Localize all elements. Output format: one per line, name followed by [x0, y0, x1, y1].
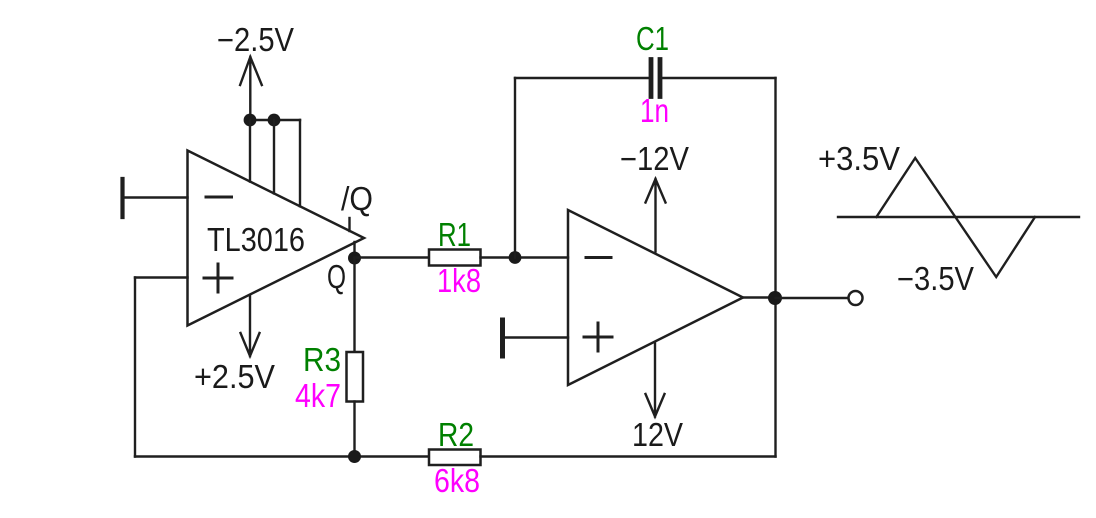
wire power pin 2 [273, 120, 275, 193]
comparator U1 TL3016 [188, 151, 365, 326]
wire R1 to op-amp [481, 256, 569, 258]
junction dot bottom [348, 450, 361, 463]
waveform triangle wave [876, 158, 1035, 277]
wire bottom right [481, 455, 776, 457]
wire op-amp output [743, 296, 776, 298]
svg-text:R1: R1 [438, 216, 471, 253]
wire power pin 3 [299, 120, 301, 206]
pin /Q stub [348, 218, 350, 231]
inverting input marker [206, 196, 232, 199]
wire power rail [250, 119, 300, 121]
svg-text:4k7: 4k7 [295, 377, 341, 414]
power arrow 12V [646, 344, 665, 417]
op-amp U2 [568, 210, 743, 385]
svg-text:/Q: /Q [341, 180, 373, 217]
wire top to C1 [515, 77, 649, 79]
svg-text:1n: 1n [640, 92, 669, 129]
svg-text:12V: 12V [632, 416, 683, 453]
junction dot node A [509, 251, 522, 264]
wire feedback left [134, 278, 136, 457]
output terminal circle [849, 291, 863, 305]
wire R3 to bottom [353, 402, 355, 457]
svg-text:−3.5V: −3.5V [897, 260, 974, 297]
svg-text:Q: Q [327, 258, 346, 295]
wire to output terminal [776, 297, 849, 299]
capacitor C1 [651, 60, 660, 97]
resistor R2 [429, 450, 481, 466]
junction dot [244, 114, 257, 127]
resistor R3 [347, 352, 364, 402]
wire feedback up [514, 78, 516, 258]
svg-text:−2.5V: −2.5V [217, 21, 294, 58]
svg-text:C1: C1 [636, 20, 669, 57]
inverting input marker [586, 256, 611, 259]
resistor R1 [429, 250, 481, 266]
waveform baseline [838, 216, 1079, 218]
svg-text:6k8: 6k8 [434, 462, 480, 499]
pin Q stub [353, 242, 355, 258]
power arrow -12V [646, 179, 666, 252]
svg-text:1k8: 1k8 [437, 262, 481, 299]
power arrow +2.5V [241, 296, 260, 357]
junction dot [268, 114, 281, 127]
wire C1 to right rail [663, 77, 776, 79]
wire bottom left [135, 455, 429, 457]
non-inverting input marker [204, 264, 232, 292]
wire power pin 1 [249, 120, 251, 182]
svg-text:+3.5V: +3.5V [818, 140, 900, 177]
input terminal bar [500, 320, 505, 356]
svg-text:TL3016: TL3016 [207, 221, 305, 258]
power arrow -2.5V [240, 57, 262, 120]
input terminal bar [120, 179, 124, 217]
junction dot output [768, 291, 782, 305]
wire inverting input [123, 196, 188, 198]
wire non-inverting input [135, 276, 188, 278]
svg-text:R3: R3 [303, 341, 341, 378]
wire Q to R1 [355, 256, 430, 258]
svg-text:+2.5V: +2.5V [194, 358, 275, 395]
wire Q to R3 [353, 258, 355, 352]
wire feedback right [774, 78, 776, 457]
junction dot Q [348, 252, 361, 265]
svg-text:−12V: −12V [620, 140, 689, 177]
non-inverting input marker [584, 323, 612, 351]
wire non-inverting input [503, 336, 568, 338]
svg-text:R2: R2 [438, 416, 474, 453]
